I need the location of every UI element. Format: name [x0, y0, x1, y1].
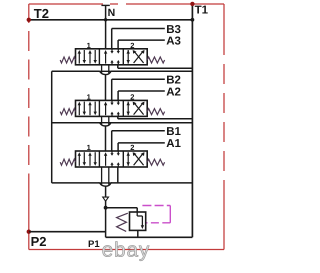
wire relief box bottom: [106, 236, 193, 238]
valve assembly envelope (red dashed boundary): [29, 4, 224, 250]
port dot P2: [27, 230, 31, 234]
relief valve RV spring: [117, 213, 128, 231]
wire bypass funnel below V1: [101, 65, 103, 73]
V2 centre square bypass arrow: [105, 104, 107, 115]
port dot T1: [190, 2, 194, 6]
svg-text:B3: B3: [166, 24, 181, 36]
return spring right of V3: [147, 159, 164, 165]
svg-text:2: 2: [130, 93, 134, 102]
wire pump gallery drop to relief: [105, 186, 107, 237]
wire work port B2: [112, 78, 165, 80]
svg-text:2: 2: [130, 41, 134, 50]
svg-text:P2: P2: [31, 234, 47, 249]
port dot T2: [27, 18, 31, 22]
return spring left of V1: [60, 57, 75, 63]
wire pump line P2-P1: [29, 231, 105, 233]
wire work port B1: [112, 130, 165, 132]
wire work port A1: [118, 142, 165, 144]
return spring left of V3: [60, 159, 75, 165]
svg-text:1: 1: [87, 93, 91, 102]
wire tank line T2-T1: [29, 19, 192, 21]
junction dot T1 x tank line: [191, 18, 195, 22]
relief valve RV internal arrow: [136, 212, 138, 216]
check valve on pump gallery: [103, 197, 109, 201]
svg-text:B2: B2: [166, 75, 181, 87]
directional spool valve V2 body: [76, 100, 148, 116]
relief valve RV body: [130, 212, 146, 230]
pink dashed pilot box (option): [139, 206, 170, 223]
wire work port B3: [112, 28, 165, 30]
V1 centre square blocked ports: [111, 49, 113, 53]
wire work port A3: [118, 39, 165, 41]
svg-text:1: 1: [87, 143, 91, 152]
junction dot N x tank line: [104, 18, 107, 21]
svg-text:P1: P1: [88, 239, 100, 250]
wire neutral bypass N drop: [105, 6, 107, 49]
V3 centre square blocked ports: [111, 151, 113, 155]
wire bypass funnel below V3: [101, 167, 103, 185]
plug cap on port N: [101, 4, 109, 6]
wire work port A2: [118, 90, 165, 92]
section divider 1 with bypass dip: [52, 70, 100, 72]
return spring right of V1: [147, 57, 164, 63]
V3 centre square bypass arrow: [105, 155, 107, 166]
svg-text:A1: A1: [166, 138, 181, 150]
section divider 3 with bypass dip: [52, 182, 100, 184]
section box left edge: [51, 71, 53, 183]
return spring left of V2: [60, 109, 75, 115]
V2 centre square blocked ports: [111, 100, 113, 104]
V1 position-2 square crossed arrows: [127, 50, 129, 64]
svg-text:T2: T2: [34, 6, 49, 21]
junction dot pump gallery x relief branch: [104, 206, 108, 210]
svg-text:T1: T1: [195, 4, 209, 16]
V2 position-1 square flow arrows: [78, 104, 80, 115]
V1 centre square bypass arrow: [105, 53, 107, 64]
wire tank bus right (T1 down to relief box): [191, 4, 193, 238]
return spring right of V2: [147, 109, 164, 115]
V1 position-1 square flow arrows: [78, 53, 80, 64]
svg-text:A3: A3: [166, 35, 181, 47]
wire bypass funnel below V2: [101, 116, 103, 124]
wire V2 tank return to bus: [117, 116, 119, 118]
wire relief branch: [106, 207, 138, 209]
directional spool valve V3 body: [76, 151, 148, 167]
svg-text:A2: A2: [166, 86, 181, 98]
wire V1 tank return to bus: [117, 65, 119, 68]
directional spool valve V1 body: [76, 49, 148, 65]
V2 position-2 square crossed arrows: [127, 102, 129, 116]
V3 position-1 square flow arrows: [78, 155, 80, 166]
svg-text:2: 2: [130, 143, 134, 152]
wire V3 tank return into divider: [117, 167, 119, 183]
section divider 2 with bypass dip: [52, 122, 100, 124]
svg-text:N: N: [108, 7, 116, 19]
svg-text:1: 1: [87, 41, 91, 50]
V3 position-2 square crossed arrows: [127, 152, 129, 166]
svg-text:B1: B1: [166, 126, 181, 138]
wire relief outlet to bottom: [137, 230, 139, 237]
svg-text:ebay: ebay: [102, 239, 150, 262]
